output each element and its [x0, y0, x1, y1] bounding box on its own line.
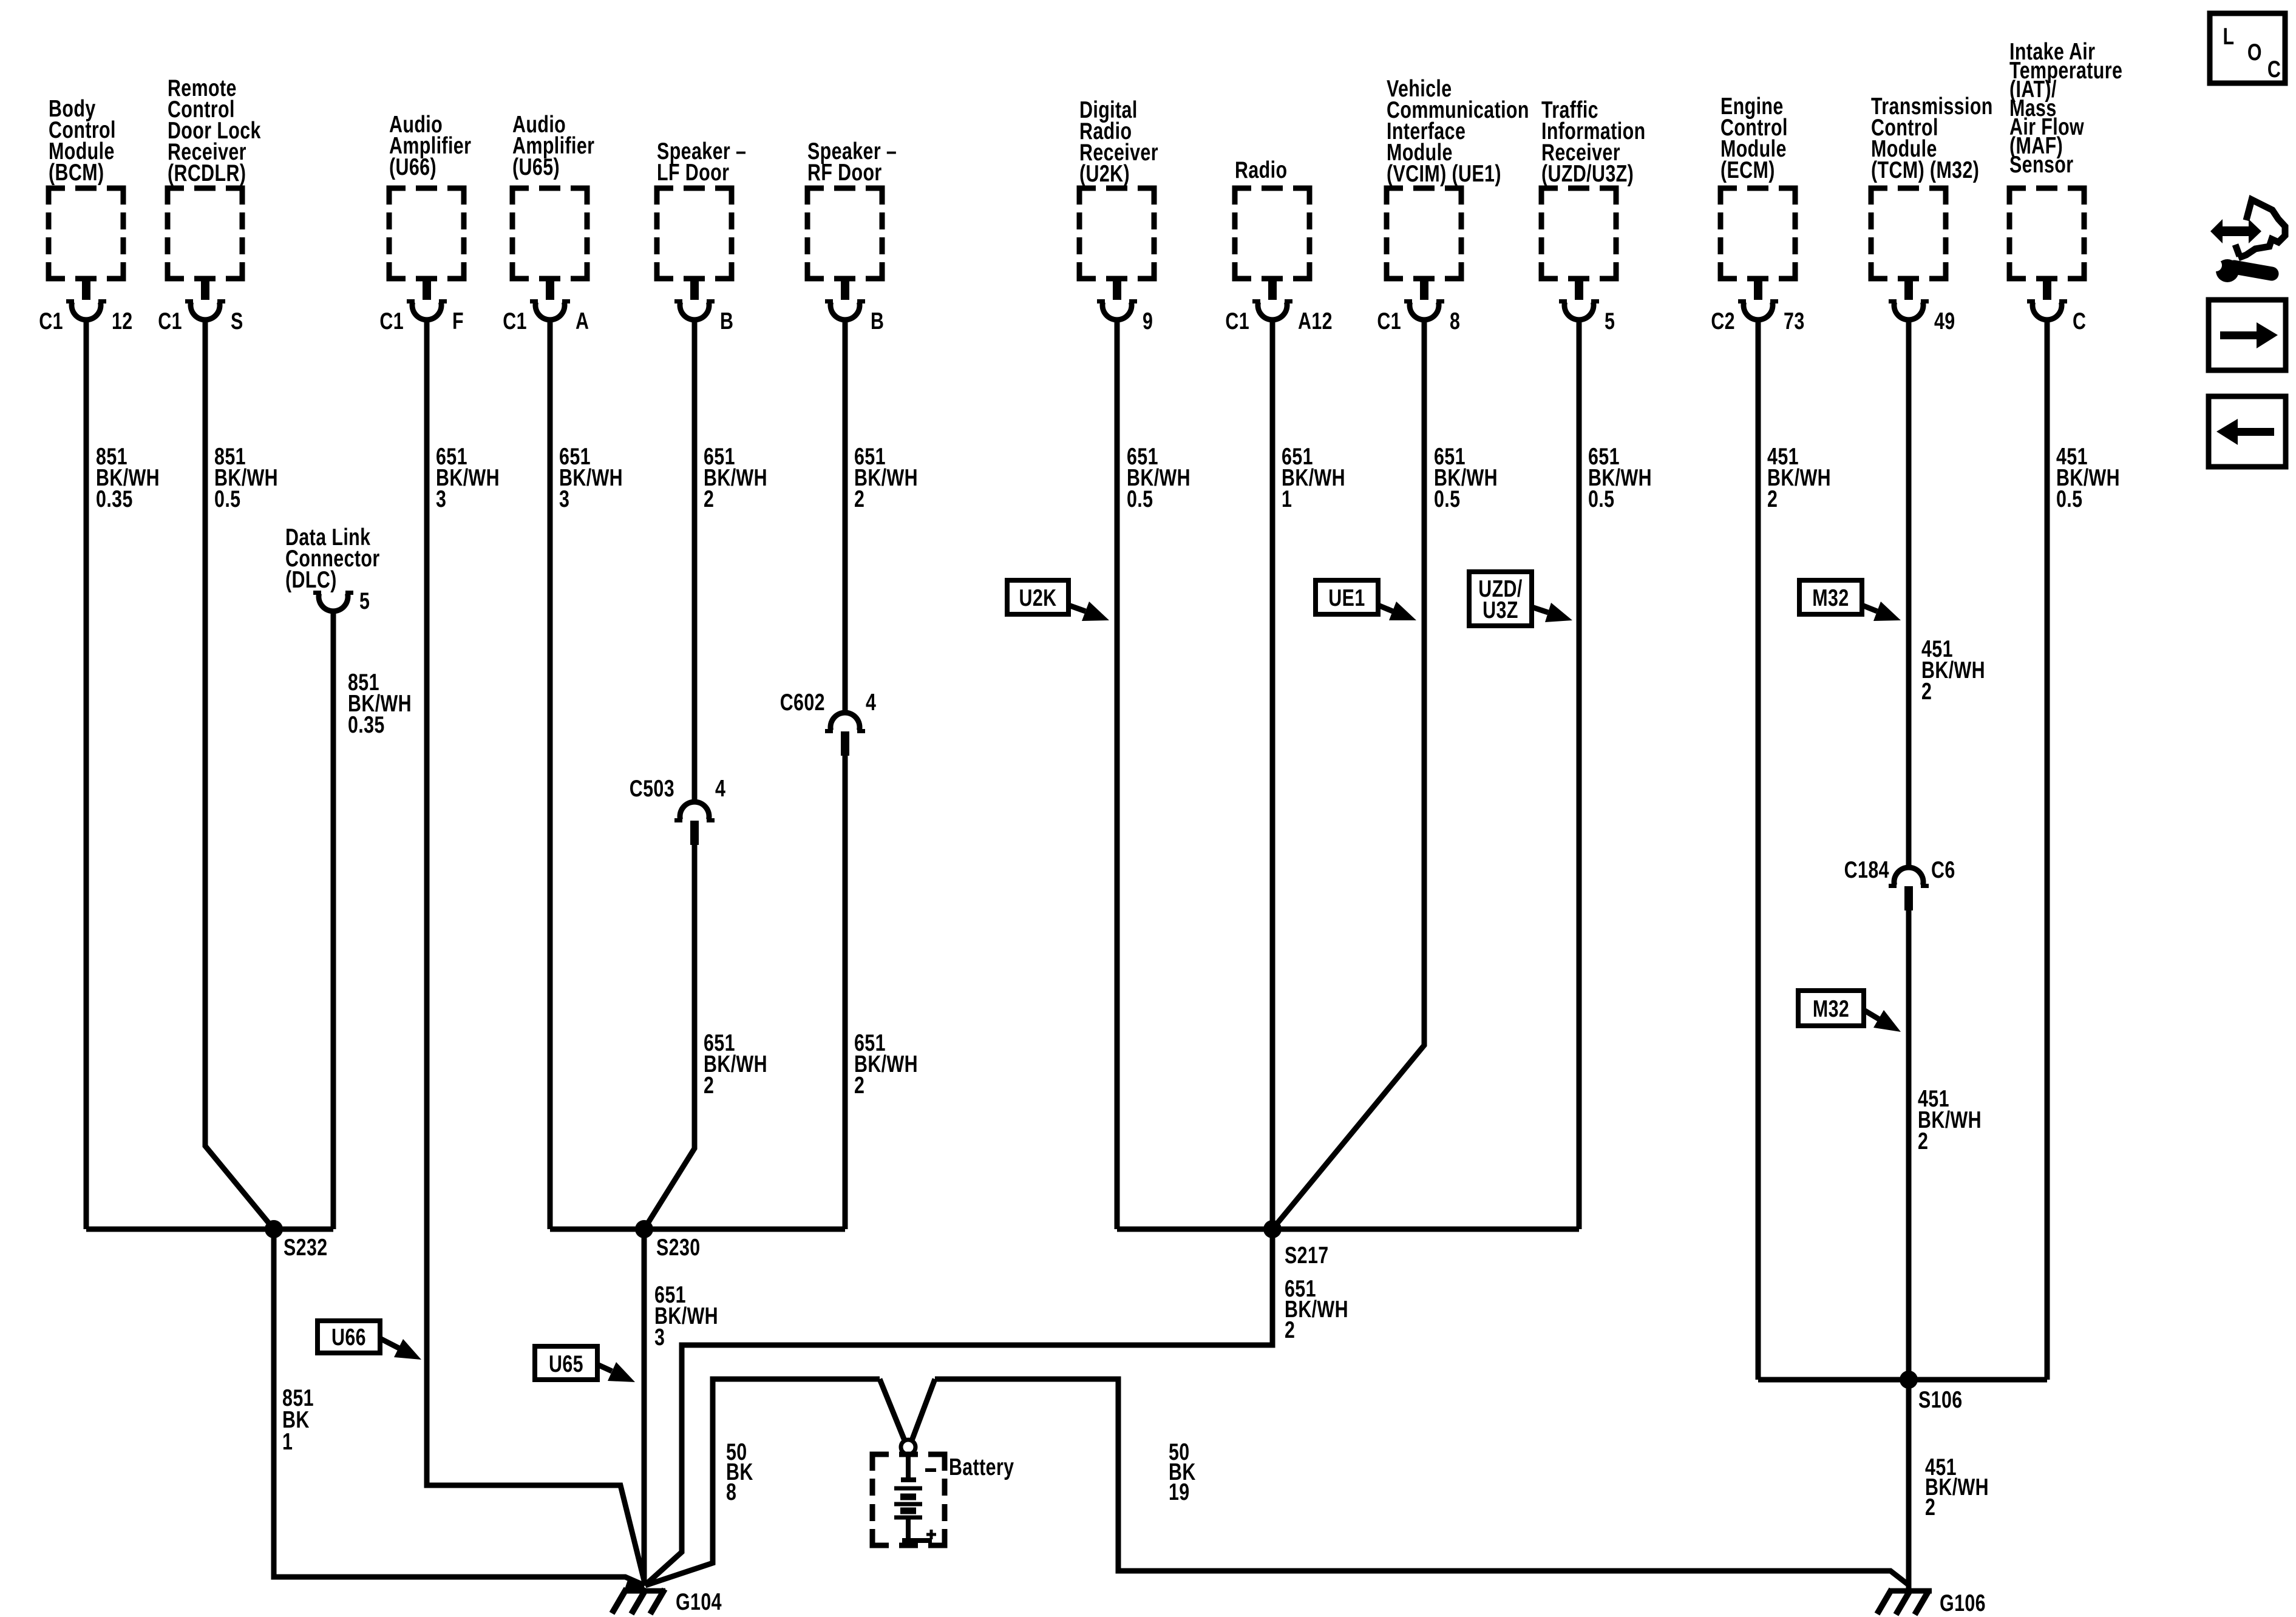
svg-text:12: 12: [112, 308, 133, 334]
wire: U2K 651 BK/WH down to S217 bus: [1115, 320, 1120, 1229]
wire: Radio 651 BK/WH down to S217: [1270, 320, 1275, 1229]
svg-text:U65: U65: [549, 1351, 583, 1377]
arrow from U65 label to wire: [597, 1362, 635, 1382]
connector cup of Speaker LF Door: [674, 302, 715, 320]
svg-text:3: 3: [559, 486, 569, 512]
arrow from M32 (lower) label to wire: [1864, 1010, 1901, 1032]
svg-text:O: O: [2247, 39, 2262, 65]
svg-text:C1: C1: [158, 308, 182, 334]
inline connector C602 cap: [825, 713, 865, 731]
module TCM (Transmission Control Module): dashed box: [1871, 188, 1946, 279]
arrow from UZD/U3Z label to wire: [1532, 603, 1572, 622]
module IAT/MAF Sensor: dashed box: [2009, 188, 2084, 279]
pin number C of IAT/MAF Sensor: [2073, 308, 2086, 334]
svg-text:1: 1: [1282, 486, 1292, 512]
wire label 851 BK/WH 0.5 (RCDLR wire): [214, 443, 278, 512]
module U66 Audio Amplifier: dashed box: [389, 188, 464, 279]
pin number A of U65 Audio Amplifier: [576, 308, 589, 334]
wire: BCM 851 BK/WH down to splice bus: [84, 320, 89, 1229]
connector C184 pin stub: [1904, 886, 1913, 910]
svg-text:0.5: 0.5: [1434, 486, 1460, 512]
svg-text:Sensor: Sensor: [2009, 151, 2073, 177]
svg-text:C: C: [2267, 56, 2281, 82]
connector C503 pin stub: [690, 821, 699, 845]
pin number 5 of DLC: [359, 588, 370, 614]
node S230 label: [656, 1234, 701, 1260]
splice bus S217 horizontal wire: [1117, 1227, 1579, 1232]
pin number 4 of C602: [866, 689, 876, 715]
svg-text:49: 49: [1934, 308, 1955, 334]
connector pin stub of RCDLR (Remote Control Door Lock Receiver): [201, 277, 209, 300]
boxed label UZD/U3Z: [1469, 572, 1532, 626]
ground G106 label: [1940, 1590, 1986, 1616]
wire: RCDLR 851 BK/WH down with diagonal into S232: [205, 320, 274, 1229]
wire: 651 BK/WH 3 from S230 straight down into ground G104: [642, 1229, 647, 1585]
boxed label M32 (lower): [1798, 991, 1864, 1026]
module U66 Audio Amplifier: title text: [389, 111, 471, 180]
wire label 851 BK 1 (S232 to G104): [282, 1385, 314, 1454]
svg-text:U2K: U2K: [1019, 585, 1057, 611]
module Speaker RF Door: dashed box: [807, 188, 882, 279]
wire: V drop to battery positive post: [880, 1379, 935, 1440]
svg-text:0.5: 0.5: [1588, 486, 1614, 512]
svg-text:2: 2: [1767, 486, 1778, 512]
svg-text:2: 2: [1921, 678, 1932, 704]
module ECM (Engine Control Module): dashed box: [1720, 188, 1795, 279]
svg-text:F: F: [452, 308, 464, 334]
wire: 651 BK/WH 2 from S217 down, left, down into ground G104: [645, 1229, 1272, 1585]
pin number F of U66 Audio Amplifier: [452, 308, 464, 334]
wire: RF speaker 651 BK/WH upper segment to C602: [843, 320, 848, 710]
connector pin stub of UZD/U3Z Traffic Information Receiver: [1575, 277, 1583, 300]
svg-text:C2: C2: [1711, 308, 1735, 334]
wire: ECM 451 BK/WH down to S106 bus: [1756, 320, 1761, 1380]
svg-text:73: 73: [1784, 308, 1805, 334]
pin number B of Speaker RF Door: [871, 308, 884, 334]
wire label 651 BK/WH 3 (U66 wire): [436, 443, 500, 512]
wire: U66 651 BK/WH down, right, into ground G104: [427, 320, 645, 1583]
arrow from U66 label to wire: [380, 1338, 421, 1360]
svg-text:0.5: 0.5: [1127, 486, 1153, 512]
connector cup of U65 Audio Amplifier: [530, 302, 570, 320]
connector cup of Speaker RF Door: [825, 302, 865, 320]
module ECM (Engine Control Module): title text: [1720, 93, 1788, 183]
arrow from U2K label to wire: [1068, 602, 1109, 621]
connector label C2 of ECM (Engine Control Module): [1711, 308, 1735, 334]
svg-text:C6: C6: [1931, 856, 1955, 883]
node S106 junction dot: [1900, 1371, 1918, 1389]
node S217 label: [1285, 1242, 1329, 1268]
node S232 junction dot: [265, 1220, 283, 1238]
connector pin stub of U65 Audio Amplifier: [546, 277, 554, 300]
svg-text:(ECM): (ECM): [1720, 157, 1775, 183]
svg-text:A: A: [576, 308, 589, 334]
ground G104 label: [676, 1588, 722, 1615]
svg-text:(UZD/U3Z): (UZD/U3Z): [1541, 160, 1634, 186]
svg-text:LF Door: LF Door: [657, 159, 729, 185]
svg-text:5: 5: [359, 588, 370, 614]
module U65 Audio Amplifier: dashed box: [512, 188, 587, 279]
pin number 5 of UZD/U3Z Traffic Information Receiver: [1605, 308, 1615, 334]
module U2K Digital Radio Receiver: dashed box: [1079, 188, 1154, 279]
pin number B of Speaker LF Door: [720, 308, 733, 334]
connector cup of UZD/U3Z Traffic Information Receiver: [1559, 302, 1599, 320]
wire: RF speaker 651 BK/WH lower segment down to S230 bus: [843, 756, 848, 1229]
pin number 12 of BCM (Body Control Module): [112, 308, 133, 334]
module BCM (Body Control Module): dashed box: [49, 188, 123, 279]
pin number 73 of ECM (Engine Control Module): [1784, 308, 1805, 334]
svg-text:0.5: 0.5: [214, 486, 240, 512]
connector pin stub of VCIM (Vehicle Communication Interface Module): [1420, 277, 1428, 300]
battery name label: [949, 1454, 1014, 1480]
svg-text:S230: S230: [656, 1234, 701, 1260]
svg-text:(VCIM) (UE1): (VCIM) (UE1): [1387, 160, 1501, 186]
wire label 451 BK/WH 2 (TCM wire lower): [1918, 1085, 1982, 1154]
svg-text:5: 5: [1605, 308, 1615, 334]
wire label 451 BK/WH 2 (TCM wire upper): [1921, 636, 1985, 704]
pin number 4 of C503: [715, 775, 725, 801]
battery plus sign: [926, 1530, 936, 1539]
wire label 651 BK/WH 2 (RF speaker wire): [854, 443, 918, 512]
svg-text:2: 2: [854, 1072, 864, 1098]
connector cup of TCM (Transmission Control Module): [1889, 302, 1929, 320]
svg-text:(U65): (U65): [512, 154, 560, 180]
module Speaker LF Door: dashed box: [657, 188, 732, 279]
svg-text:C1: C1: [1225, 308, 1249, 334]
ground G106 symbol: [1877, 1589, 1932, 1615]
svg-text:UE1: UE1: [1328, 585, 1365, 611]
Data Link Connector (DLC) title: [285, 524, 380, 592]
module U65 Audio Amplifier: title text: [512, 111, 594, 180]
svg-text:C503: C503: [630, 775, 674, 801]
battery cell symbol: [894, 1454, 932, 1541]
boxed label U65: [535, 1346, 597, 1380]
wire label 651 BK/WH 2 (below C503): [704, 1029, 767, 1098]
node S232 label: [284, 1234, 328, 1260]
module Speaker RF Door: title text: [807, 138, 897, 185]
module IAT/MAF Sensor: title text: [2009, 38, 2122, 177]
svg-text:C602: C602: [780, 689, 825, 715]
wire: IAT/MAF 451 BK/WH down to S106 bus: [2045, 320, 2050, 1380]
svg-text:S217: S217: [1285, 1242, 1329, 1268]
wire label 651 BK/WH 2 (LF speaker wire): [704, 443, 767, 512]
connector label C503: [630, 775, 674, 801]
splice bus S230 horizontal wire: [550, 1227, 845, 1232]
svg-text:C: C: [2073, 308, 2086, 334]
connector label C602: [780, 689, 825, 715]
svg-text:2: 2: [704, 1072, 714, 1098]
connector pin stub of Speaker LF Door: [690, 277, 699, 300]
connector pin stub of TCM (Transmission Control Module): [1904, 277, 1913, 300]
svg-text:2: 2: [854, 486, 864, 512]
boxed label U66: [318, 1321, 380, 1353]
battery terminal ring: [901, 1440, 915, 1454]
svg-text:(DLC): (DLC): [285, 566, 337, 592]
connector cup of BCM (Body Control Module): [66, 302, 106, 320]
svg-text:2: 2: [1918, 1128, 1928, 1154]
wire: TCM 451 BK/WH lower segment down through S106 to ground G106: [1906, 910, 1912, 1591]
service icon: double arrow, hook outline, wrench: [2210, 200, 2285, 282]
connector cup of Radio: [1252, 302, 1292, 320]
svg-text:2: 2: [1285, 1317, 1295, 1343]
connector C602 pin stub: [841, 731, 849, 756]
connector cup of RCDLR (Remote Control Door Lock Receiver): [185, 302, 225, 320]
wire label 651 BK/WH 3 (S230 to G104): [654, 1281, 718, 1350]
module RCDLR (Remote Control Door Lock Receiver): dashed box: [168, 188, 242, 279]
connector label C1 of U66 Audio Amplifier: [379, 308, 404, 334]
arrow from M32 (upper) label to wire: [1862, 602, 1901, 621]
svg-text:0.5: 0.5: [2056, 486, 2082, 512]
connector label C1 of Radio: [1225, 308, 1249, 334]
svg-text:(U66): (U66): [389, 154, 436, 180]
wire label 851 BK/WH 0.35 (BCM wire): [96, 443, 160, 512]
connector label C1 of VCIM (Vehicle Communication Interface Module): [1377, 308, 1401, 334]
connector label C6: [1931, 856, 1955, 883]
inline connector C503 cap: [674, 802, 715, 820]
wire label 50 BK 19: [1169, 1439, 1196, 1505]
wire label 451 BK/WH 0.5 (IAT wire): [2056, 443, 2120, 512]
module UZD/U3Z Traffic Information Receiver: title text: [1541, 97, 1646, 186]
connector label C184: [1844, 856, 1889, 883]
wire: DLC 851 BK/WH down to S232 bus: [331, 611, 336, 1229]
LOC reference box: [2210, 13, 2285, 83]
svg-text:Radio: Radio: [1235, 157, 1287, 183]
svg-text:S232: S232: [284, 1234, 328, 1260]
wire: TCM 451 BK/WH upper segment to C184: [1906, 320, 1912, 865]
wire label 851 BK/WH 0.35 (DLC wire): [348, 669, 412, 737]
svg-text:(BCM): (BCM): [49, 159, 104, 185]
svg-text:B: B: [720, 308, 733, 334]
module Speaker LF Door: title text: [657, 138, 746, 185]
svg-text:M32: M32: [1813, 995, 1849, 1022]
wire label 651 BK/WH 0.5 (UZD wire): [1588, 443, 1652, 512]
node S106 label: [1918, 1386, 1963, 1412]
connector pin stub of Radio: [1268, 277, 1277, 300]
svg-text:8: 8: [1450, 308, 1460, 334]
svg-text:19: 19: [1169, 1479, 1190, 1505]
wire: 851 BK 1 from S232 down and right into ground G104: [274, 1229, 645, 1585]
wire: 50 BK 19 battery feed right branch to ground G106: [935, 1379, 1909, 1585]
connector pin stub of U2K Digital Radio Receiver: [1113, 277, 1121, 300]
splice bus S232 horizontal wire: [86, 1227, 333, 1232]
svg-text:G104: G104: [676, 1588, 722, 1615]
svg-text:C1: C1: [379, 308, 404, 334]
ground G104 symbol: [612, 1578, 665, 1614]
svg-text:B: B: [871, 308, 884, 334]
module U2K Digital Radio Receiver: title text: [1079, 97, 1158, 186]
splice bus S106 horizontal wire ECM to IAT: [1758, 1377, 2047, 1383]
node S230 junction dot: [635, 1220, 653, 1238]
module BCM (Body Control Module): title text: [49, 95, 116, 185]
wire label 651 BK/WH 2 (below C602): [854, 1029, 918, 1098]
module VCIM (Vehicle Communication Interface Module): title text: [1387, 75, 1529, 186]
wire label 451 BK/WH 2 (S106 to G106): [1925, 1454, 1989, 1520]
connector label C1 of U65 Audio Amplifier: [503, 308, 527, 334]
svg-text:4: 4: [866, 689, 876, 715]
wire label 651 BK/WH 0.5 (U2K wire): [1127, 443, 1190, 512]
svg-text:C1: C1: [503, 308, 527, 334]
svg-text:4: 4: [715, 775, 725, 801]
wire: VCIM 651 BK/WH down with diagonal into S217: [1272, 320, 1424, 1229]
connector pin stub of BCM (Body Control Module): [82, 277, 90, 300]
svg-text:U3Z: U3Z: [1483, 597, 1518, 623]
svg-text:G106: G106: [1940, 1590, 1986, 1616]
svg-text:RF Door: RF Door: [807, 159, 882, 185]
svg-text:3: 3: [436, 486, 446, 512]
module Radio: dashed box: [1235, 188, 1309, 279]
svg-text:8: 8: [726, 1479, 736, 1505]
wire: LF speaker 651 BK/WH lower segment with diagonal into S230: [644, 845, 695, 1229]
connector cup of U2K Digital Radio Receiver: [1097, 302, 1137, 320]
module RCDLR (Remote Control Door Lock Receiver): title text: [168, 75, 261, 186]
connector label C1 of BCM (Body Control Module): [39, 308, 63, 334]
svg-text:S: S: [231, 308, 243, 334]
pin number A12 of Radio: [1298, 308, 1333, 334]
wire label 651 BK/WH 0.5 (VCIM wire): [1434, 443, 1498, 512]
boxed label U2K: [1007, 580, 1068, 614]
boxed label M32 (upper): [1799, 580, 1862, 614]
svg-text:0.35: 0.35: [348, 711, 385, 737]
svg-text:9: 9: [1143, 308, 1153, 334]
inline connector C184 cap: [1889, 867, 1929, 886]
svg-text:U66: U66: [331, 1324, 366, 1350]
svg-text:(U2K): (U2K): [1079, 160, 1130, 186]
svg-text:(TCM) (M32): (TCM) (M32): [1871, 157, 1979, 183]
svg-text:2: 2: [704, 486, 714, 512]
connector pin stub of ECM (Engine Control Module): [1754, 277, 1762, 300]
svg-text:M32: M32: [1812, 585, 1849, 611]
node S217 junction dot: [1263, 1220, 1282, 1238]
wire: LF speaker 651 BK/WH upper segment to C503: [692, 320, 698, 799]
connector cup of U66 Audio Amplifier: [407, 302, 447, 320]
pin number S of RCDLR (Remote Control Door Lock Receiver): [231, 308, 243, 334]
wire label 651 BK/WH 1 (Radio wire): [1282, 443, 1345, 512]
pin number 8 of VCIM (Vehicle Communication Interface Module): [1450, 308, 1460, 334]
svg-text:S106: S106: [1918, 1386, 1963, 1412]
battery minus sign: [925, 1468, 936, 1472]
svg-text:(RCDLR): (RCDLR): [168, 160, 246, 186]
wire: 50 BK 8 battery feed left branch to ground G104: [645, 1379, 880, 1585]
svg-text:L: L: [2223, 23, 2235, 49]
svg-text:Battery: Battery: [949, 1454, 1014, 1480]
module VCIM (Vehicle Communication Interface Module): dashed box: [1387, 188, 1461, 279]
connector cup of VCIM (Vehicle Communication Interface Module): [1404, 302, 1444, 320]
svg-text:1: 1: [282, 1428, 293, 1454]
svg-text:0.35: 0.35: [96, 486, 133, 512]
battery dashed enclosure box: [872, 1454, 945, 1545]
wire: UZD 651 BK/WH down to S217 bus: [1577, 320, 1582, 1229]
connector pin stub of U66 Audio Amplifier: [423, 277, 431, 300]
wire label 451 BK/WH 2 (ECM wire): [1767, 443, 1831, 512]
connector cup of IAT/MAF Sensor: [2027, 302, 2067, 320]
wire: U65 651 BK/WH down to S230 bus: [548, 320, 553, 1229]
connector label C1 of RCDLR (Remote Control Door Lock Receiver): [158, 308, 182, 334]
connector pin stub of IAT/MAF Sensor: [2043, 277, 2051, 300]
connector pin stub of Speaker RF Door: [841, 277, 849, 300]
wire label 651 BK/WH 2 (S217 out): [1285, 1275, 1348, 1343]
svg-text:C184: C184: [1844, 856, 1889, 883]
pin number 9 of U2K Digital Radio Receiver: [1143, 308, 1153, 334]
module TCM (Transmission Control Module): title text: [1871, 93, 1993, 183]
module UZD/U3Z Traffic Information Receiver: dashed box: [1541, 188, 1616, 279]
pin number 49 of TCM (Transmission Control Module): [1934, 308, 1955, 334]
boxed label UE1: [1316, 580, 1378, 614]
wire label 651 BK/WH 3 (U65 wire): [559, 443, 623, 512]
backward arrow navigation box: [2209, 396, 2286, 467]
svg-text:A12: A12: [1298, 308, 1333, 334]
connector cup of DLC: [313, 593, 353, 611]
forward arrow navigation box: [2209, 300, 2286, 370]
connector cup of ECM (Engine Control Module): [1738, 302, 1778, 320]
arrow from UE1 label to wire: [1378, 602, 1416, 620]
module Radio: title text: [1235, 157, 1287, 183]
svg-text:2: 2: [1925, 1494, 1935, 1520]
svg-text:C1: C1: [39, 308, 63, 334]
svg-text:3: 3: [654, 1324, 665, 1350]
wire label 50 BK 8: [726, 1439, 753, 1505]
svg-text:C1: C1: [1377, 308, 1401, 334]
